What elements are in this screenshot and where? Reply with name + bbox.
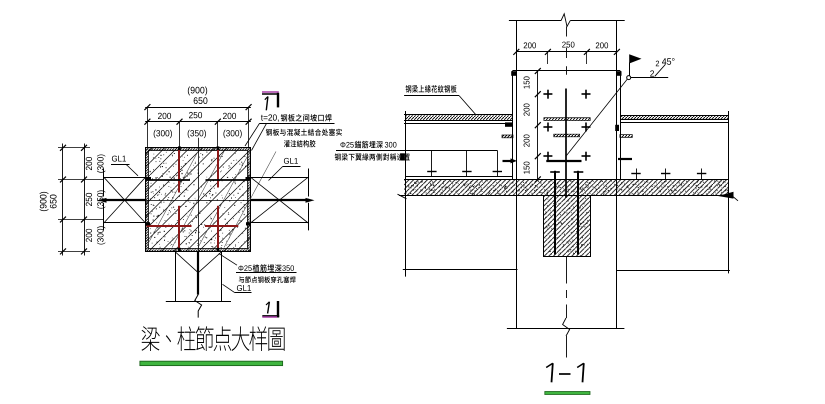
slab right edge arrow: [718, 192, 734, 199]
top dimension line 200/250/200: [516, 51, 617, 53]
slab left edge tick: [398, 194, 407, 199]
left face weld blob: [505, 122, 512, 126]
left witness lines: [58, 147, 90, 149]
right anchor studs: [636, 169, 638, 180]
left anchor box top line: [405, 150, 497, 152]
left anchor box bottom line: [405, 176, 512, 178]
column concrete block (hatched): [146, 148, 251, 252]
flag leader line: [567, 79, 628, 155]
section title 1-1: [552, 363, 553, 382]
rebar red horizontal right: [205, 225, 238, 227]
left wall bottom line: [403, 269, 518, 271]
dim text 250: [562, 42, 574, 48]
label GL1 left: [112, 156, 126, 162]
bottom break zigzag: [195, 295, 202, 318]
plate zone top line: [512, 70, 620, 72]
top dimension line 2 (200/250/200): [145, 121, 251, 123]
left face thick bar with arrow: [503, 160, 512, 162]
center line through block: [146, 200, 251, 202]
lower break zigzag: [563, 318, 570, 336]
dim text 200: [596, 42, 608, 48]
left beam end line: [405, 111, 407, 277]
anchor rebar left: [554, 171, 556, 255]
top witness lines: [147, 107, 149, 147]
dim text (300): [154, 130, 172, 138]
vertical centerline of block: [198, 138, 200, 252]
rebar red horizontal left: [147, 225, 192, 227]
right face thick bar: [618, 158, 632, 160]
note phi25 anchor underline: [336, 150, 405, 152]
slab hatched band: [404, 179, 728, 196]
note t=20 leaders: [245, 123, 260, 146]
note phi25 line1: [238, 265, 251, 271]
note t=20 underline: [260, 123, 335, 125]
left dim text 200: [86, 157, 92, 170]
plug weld marks +: [543, 93, 552, 95]
column bottom end line: [507, 328, 625, 330]
plate zone right line: [620, 71, 622, 179]
block concrete dots: [150, 152, 247, 249]
right beam top flange: [620, 115, 728, 117]
dim text 650: [194, 97, 208, 104]
title green underline bar: [140, 361, 283, 365]
dim text 200: [524, 134, 530, 146]
rebar red vertical 1 lower: [178, 206, 180, 251]
weld flag symbol: [629, 63, 631, 76]
rebar red vertical 1 upper: [178, 148, 180, 193]
left dim text 250: [86, 193, 92, 206]
lower centerline: [566, 257, 568, 284]
left dim text 200: [86, 229, 92, 242]
left dim text (350): [97, 190, 105, 208]
section marker 1 top: [262, 91, 279, 93]
bottom flange thick line: [546, 160, 581, 162]
section marker 1 bottom: [277, 301, 279, 318]
note phi25 anchor line2: [335, 153, 410, 160]
flange bar 1 (hatched): [544, 118, 590, 121]
left anchor box right edge: [497, 150, 499, 176]
dim text 200: [524, 42, 536, 48]
left beam center line with arrow: [103, 199, 146, 201]
section title green bar: [545, 392, 590, 395]
bottom center thick line: [197, 252, 199, 295]
left face flange stub: [502, 135, 513, 138]
top dimension line 1 (650): [145, 107, 251, 109]
block steep hatch lines: [146, 152, 198, 248]
right beam GL1 outline: [308, 169, 310, 197]
dim text (300): [223, 130, 241, 138]
dim text (350): [188, 130, 206, 138]
steel plate flange lines in block: [146, 179, 191, 181]
dim text 200: [524, 103, 530, 115]
dim text 200: [223, 113, 236, 119]
label GL1 bottom: [237, 285, 251, 291]
note phi25 anchor line1: [340, 142, 353, 148]
right face flange stub: [620, 135, 632, 138]
left dim text 650: [50, 195, 57, 209]
left beam top flange: [404, 114, 512, 116]
anchor rebar right: [577, 171, 579, 255]
left dim text (300): [97, 154, 105, 172]
block border band hatch: [146, 148, 251, 151]
column right line: [616, 21, 618, 329]
column centerline segments: [566, 27, 568, 37]
bottom beam V brace: [175, 252, 198, 272]
weld blobs on block border: [178, 146, 181, 150]
column left line: [516, 21, 518, 329]
note line2: [266, 129, 342, 136]
stub dots: [545, 197, 590, 256]
right wall bottom line: [616, 270, 730, 272]
left dim text (900): [40, 192, 49, 211]
right beam end line: [728, 111, 730, 273]
right beam X brace: [251, 177, 309, 223]
left beam cut end blob: [400, 153, 405, 160]
left dimension line B (200/250/200): [84, 144, 86, 256]
bottom beam outline: [175, 252, 177, 302]
slab dots: [405, 180, 728, 196]
plate corner welds: [511, 71, 516, 76]
dim text 250: [189, 112, 202, 118]
top break line with zigzag: [509, 20, 561, 22]
web plate thick vertical: [565, 89, 567, 198]
note phi25 underline: [236, 272, 297, 274]
rebar red vertical 2 upper: [217, 148, 219, 188]
left anchor bars: [431, 150, 433, 176]
witness lines top dim: [547, 52, 549, 64]
right beam center line with arrow: [251, 199, 310, 201]
dim text (900): [188, 87, 207, 96]
rebar red vertical 2 lower: [217, 206, 219, 251]
right face weld blob: [615, 125, 619, 131]
note t=20 line1: [261, 114, 279, 121]
left beam X brace: [104, 177, 146, 223]
title beam-column joint detail: [142, 326, 285, 351]
note line3: [284, 140, 316, 147]
label top patterned plate: [406, 85, 457, 93]
flange bar 2 (hatched): [554, 134, 580, 137]
dim text 150: [524, 76, 530, 88]
dim text 200: [158, 113, 171, 119]
label GL1 right: [284, 158, 298, 164]
left beam GL1 outline: [103, 169, 105, 197]
inner vertical dimension line: [537, 71, 539, 179]
left dim text (300): [97, 226, 105, 244]
plate zone left line: [512, 71, 514, 179]
column stub below slab (hatched): [544, 196, 591, 257]
left dimension line A (900/650): [62, 144, 64, 256]
leader to rebar note: [219, 254, 237, 266]
note phi25 line2: [239, 276, 296, 283]
dim text 150: [524, 162, 530, 174]
